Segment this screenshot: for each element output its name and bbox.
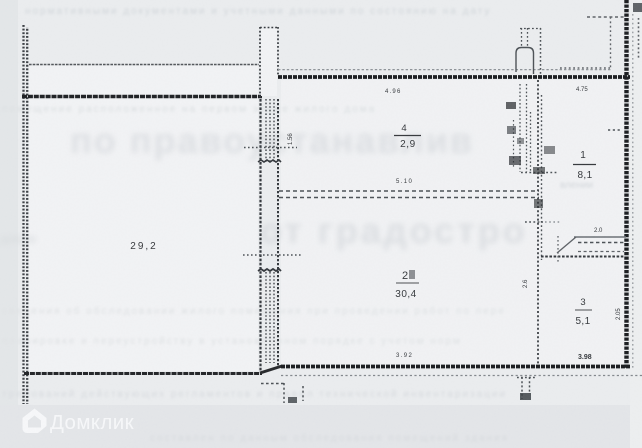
wall left outer (dotted checker) — [24, 25, 28, 404]
watermark Domclick — [23, 409, 135, 435]
balcony outline top right — [560, 17, 624, 68]
wire top-left thin line — [29, 64, 259, 66]
wire tick left of right wall — [608, 129, 622, 131]
wall bottom left dark — [24, 372, 262, 375]
wall interior dashed double (room4 / room2 divider) — [279, 191, 539, 198]
wall left-top dark — [22, 95, 262, 98]
door area bottom-right room — [525, 222, 626, 264]
wire light line below bottom wall — [281, 375, 642, 377]
wall top main dark — [278, 75, 630, 79]
wall center cluster verticals — [258, 27, 281, 371]
logo house — [23, 409, 47, 434]
wire tick across cluster upper — [244, 147, 297, 149]
shaft ink blobs — [506, 102, 555, 208]
wall bottom step — [260, 366, 282, 373]
wire outer right short dotted — [638, 18, 640, 60]
room interiors slightly lighter — [29, 66, 258, 371]
porch bottom-left dashed — [261, 383, 303, 403]
shaft cluster left of vertical wall — [514, 84, 559, 173]
flue protrusion bottom center — [517, 377, 535, 399]
porch ink blob — [288, 397, 297, 403]
wall interior vertical (room2 right) — [537, 80, 539, 365]
arch shaft above top wall — [516, 28, 541, 74]
chimney interior — [261, 29, 277, 96]
node top-right corner blob — [633, 3, 642, 12]
wire parallel dotted right of wall — [632, 14, 634, 368]
wall right outer dark — [624, 0, 628, 369]
wire tick across cluster lower — [243, 254, 301, 256]
wire light line above top wall — [278, 69, 612, 71]
flue ink blob — [520, 393, 531, 400]
wall bottom right dark — [281, 365, 631, 369]
